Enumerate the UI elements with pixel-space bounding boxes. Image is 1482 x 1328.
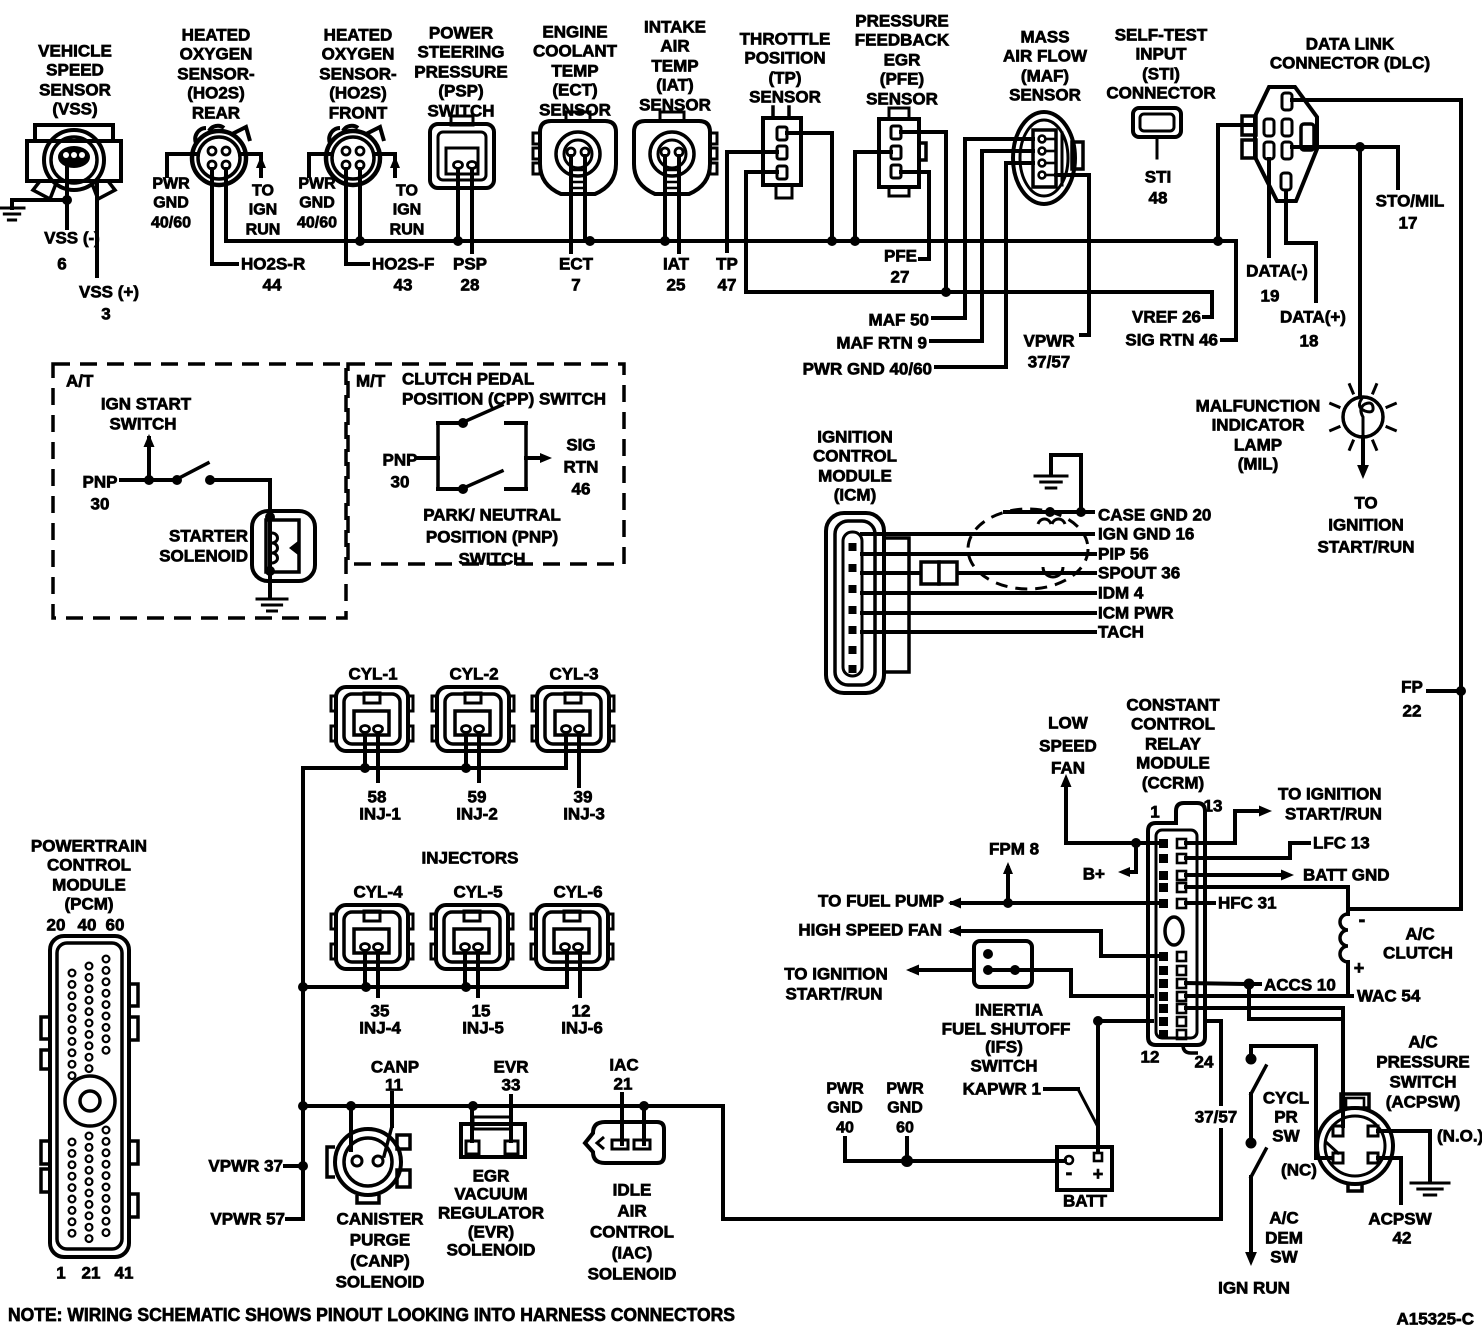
svg-text:(CCRM): (CCRM) [1142, 774, 1204, 793]
svg-text:RTN: RTN [564, 458, 599, 477]
box M/T (dashed) [348, 364, 624, 564]
svg-text:41: 41 [115, 1264, 134, 1283]
label VSS (+) 3 [79, 283, 139, 324]
label TACH [1098, 623, 1144, 642]
svg-text:OXYGEN: OXYGEN [180, 45, 253, 64]
label LOW SPEED FAN [1039, 714, 1097, 778]
svg-text:CLUTCH: CLUTCH [1383, 944, 1453, 963]
svg-text:HIGH SPEED FAN: HIGH SPEED FAN [798, 921, 942, 940]
svg-text:(MAF): (MAF) [1021, 67, 1069, 86]
label CCRM pin 12 and 24 [1141, 1048, 1214, 1072]
svg-text:CONTROL: CONTROL [590, 1223, 674, 1242]
svg-text:INJ-2: INJ-2 [456, 805, 498, 824]
wire DLC to MIL lamp [1358, 147, 1362, 396]
svg-text:POSITION: POSITION [744, 49, 825, 68]
svg-text:22: 22 [1403, 702, 1422, 721]
sensor PFE label [855, 12, 950, 109]
label CCRM pin 1 and 13 [1150, 797, 1222, 822]
label CYCL PR SW [1263, 1089, 1309, 1146]
svg-text:7: 7 [571, 276, 580, 295]
wire MIL to ignition (arrow) [1357, 437, 1369, 479]
svg-text:MAF 50: MAF 50 [869, 311, 929, 330]
svg-text:INJ-1: INJ-1 [359, 805, 401, 824]
wire VPWR 37 stub [285, 1164, 303, 1168]
wire PFE pin1 to VREF bus [901, 132, 946, 292]
svg-text:HEATED: HEATED [324, 26, 393, 45]
svg-text:1: 1 [56, 1264, 65, 1283]
svg-text:(IAC): (IAC) [612, 1244, 653, 1263]
wire ACCS to ACPSW branch [1249, 984, 1343, 1019]
svg-text:19: 19 [1261, 287, 1280, 306]
wire MAF RTN 9 [931, 151, 1033, 341]
svg-text:40: 40 [78, 916, 97, 935]
wire ECT signal [569, 156, 573, 252]
svg-text:ECT: ECT [559, 255, 594, 274]
battery BATT [1057, 1147, 1112, 1211]
label A/C DEM SW [1265, 1209, 1303, 1267]
svg-text:(CANP): (CANP) [350, 1252, 410, 1271]
svg-text:SOLENOID: SOLENOID [159, 547, 248, 566]
wire ICM IGN GND [862, 532, 1093, 536]
svg-text:A/C: A/C [1269, 1209, 1298, 1228]
solenoid STARTER SOLENOID [252, 511, 315, 597]
svg-text:PNP: PNP [383, 451, 418, 470]
wire IGN START arrow [144, 434, 155, 480]
wire HO2S-R to IGN RUN (arrow) [240, 154, 266, 176]
wire CYCL PR SW to ACPSW [1251, 1046, 1330, 1158]
svg-text:MASS: MASS [1020, 28, 1069, 47]
svg-text:SW: SW [1270, 1248, 1298, 1267]
wire EVR 33 signal [509, 1096, 513, 1141]
svg-text:SOLENOID: SOLENOID [588, 1265, 677, 1284]
svg-text:STEERING: STEERING [418, 43, 505, 62]
injector connector CYL-6 [531, 883, 613, 970]
label 59 INJ-2 [456, 788, 498, 824]
svg-text:RUN: RUN [390, 222, 425, 239]
svg-text:A/T: A/T [66, 372, 94, 391]
connector MAF (mass air flow sensor) [1013, 112, 1083, 204]
label STO/MIL 17 [1376, 192, 1445, 233]
label TO IGNITION START/RUN (MIL) [1318, 494, 1415, 557]
svg-text:VSS (+): VSS (+) [79, 283, 139, 302]
svg-text:PWR: PWR [152, 176, 190, 193]
svg-text:TP: TP [716, 255, 738, 274]
svg-text:SWITCH: SWITCH [109, 415, 176, 434]
label VSS (-) 6 [44, 229, 100, 274]
label 15 INJ-5 [462, 1002, 504, 1038]
label VPWR 37/57 [1024, 332, 1075, 372]
wire ACPSW N.O. to ground [1378, 1131, 1430, 1181]
label CLUTCH PEDAL POSITION (CPP) SWITCH [402, 370, 606, 409]
wire HO2S-F PWR GND stub [309, 154, 332, 176]
svg-text:PWR: PWR [298, 176, 336, 193]
ground at ICM case [1035, 455, 1081, 512]
svg-text:CASE GND 20: CASE GND 20 [1098, 506, 1211, 525]
svg-text:3: 3 [101, 305, 110, 324]
wire IAC 21 signal [620, 1094, 624, 1144]
connector ICM (ignition control module) [826, 513, 909, 693]
wire HO2S-F signal to label HO2S-F [346, 169, 368, 264]
svg-text:IGN GND 16: IGN GND 16 [1098, 525, 1194, 544]
svg-text:CONTROL: CONTROL [813, 447, 897, 466]
svg-text:RELAY: RELAY [1145, 735, 1202, 754]
svg-text:1: 1 [1150, 803, 1159, 822]
wire MAF PWR GND [936, 163, 1033, 367]
label KAPWR 1 [963, 1080, 1041, 1099]
svg-text:THROTTLE: THROTTLE [740, 30, 831, 49]
svg-text:TO: TO [252, 183, 274, 200]
svg-text:CONNECTOR: CONNECTOR [1106, 84, 1215, 103]
lamp MIL (malfunction indicator lamp) [1331, 385, 1396, 450]
wire DLC to SIG RTN bus [1218, 125, 1255, 241]
label 37/57 [1192, 1106, 1240, 1128]
svg-text:(STI): (STI) [1142, 65, 1180, 84]
sensor MAF label [1003, 28, 1088, 105]
label HO2S-R 44 [241, 255, 305, 295]
label ECT 7 [559, 255, 594, 295]
connector PSP (power steering pressure switch) [430, 116, 494, 188]
wire IFS to CCRM [1032, 970, 1152, 996]
svg-text:40/60: 40/60 [297, 215, 337, 232]
injector connector CYL-5 [431, 883, 513, 970]
wire HO2S-F to SIG RTN bus [358, 169, 362, 241]
svg-text:DATA(+): DATA(+) [1280, 308, 1346, 327]
ground at starter solenoid [257, 599, 287, 611]
svg-text:CYL-6: CYL-6 [553, 883, 602, 902]
svg-text:VPWR 37: VPWR 37 [208, 1157, 283, 1176]
svg-text:PWR GND 40/60: PWR GND 40/60 [803, 360, 932, 379]
svg-text:PFE: PFE [884, 247, 917, 266]
svg-text:VSS (-): VSS (-) [44, 229, 100, 248]
svg-text:SPOUT 36: SPOUT 36 [1098, 564, 1180, 583]
svg-text:(VSS): (VSS) [52, 100, 97, 119]
sensor HO2S rear label [177, 26, 254, 123]
svg-text:INJECTORS: INJECTORS [422, 849, 519, 868]
label 39 INJ-3 [563, 788, 605, 824]
svg-text:FPM 8: FPM 8 [989, 840, 1039, 859]
switch PNP/IGN start (A/T) [121, 463, 270, 515]
wire ICM TACH [862, 630, 1095, 634]
sensor TP label [740, 30, 831, 107]
svg-text:A/C: A/C [1405, 925, 1434, 944]
svg-text:+: + [1093, 1164, 1104, 1184]
svg-text:POWER: POWER [429, 24, 493, 43]
label MAF RTN 9 [836, 334, 927, 353]
svg-text:COOLANT: COOLANT [533, 42, 618, 61]
label EGR VACUUM REGULATOR (EVR) SOLENOID [438, 1167, 544, 1260]
wire TP signal to label [727, 152, 777, 251]
wire injector bus row2 [303, 982, 567, 992]
label IGN START SWITCH [101, 395, 192, 434]
svg-text:IDLE: IDLE [613, 1181, 652, 1200]
label INJECTORS [422, 849, 519, 868]
svg-text:SIG RTN 46: SIG RTN 46 [1125, 331, 1218, 350]
svg-text:EGR: EGR [884, 51, 921, 70]
svg-text:12: 12 [1141, 1048, 1160, 1067]
svg-text:IGN: IGN [393, 202, 421, 219]
wire CANP 11 signal [384, 1093, 392, 1156]
switch CYCL PR SW [1246, 1054, 1267, 1149]
svg-text:CYL-5: CYL-5 [453, 883, 502, 902]
wire MAF VPWR [1056, 175, 1089, 335]
svg-text:SENSOR: SENSOR [1009, 86, 1081, 105]
wire HO2S-R PWR GND stub [167, 154, 198, 176]
svg-text:17: 17 [1399, 214, 1418, 233]
wire EVR pin from bus [470, 1106, 474, 1141]
svg-text:IGNITION: IGNITION [817, 428, 893, 447]
svg-text:PWR: PWR [826, 1081, 864, 1098]
svg-text:PRESSURE: PRESSURE [855, 12, 949, 31]
label VREF 26 [1132, 308, 1201, 327]
svg-text:CONSTANT: CONSTANT [1126, 696, 1220, 715]
svg-text:-: - [1359, 909, 1366, 931]
connector STI (self-test input) [1133, 108, 1181, 158]
label PCM pins 1 21 41 [56, 1264, 133, 1283]
label WAC 54 [1357, 987, 1421, 1006]
svg-text:+: + [1354, 958, 1365, 978]
svg-text:A15325-C: A15325-C [1397, 1310, 1475, 1328]
svg-text:42: 42 [1393, 1229, 1412, 1248]
connector SPOUT inline [921, 562, 957, 584]
wire ECT to SIG RTN bus [583, 156, 587, 241]
svg-text:KAPWR 1: KAPWR 1 [963, 1080, 1041, 1099]
svg-text:21: 21 [614, 1075, 633, 1094]
connector DLC label [1270, 35, 1430, 73]
svg-text:DATA(-): DATA(-) [1246, 262, 1308, 281]
svg-text:27: 27 [891, 268, 910, 287]
wire FP to right rail [1428, 686, 1466, 696]
svg-text:TACH: TACH [1098, 623, 1144, 642]
label (N.O.) [1437, 1127, 1482, 1146]
svg-text:FP: FP [1401, 678, 1423, 697]
svg-text:RUN: RUN [246, 222, 281, 239]
label HIGH SPEED FAN [798, 921, 942, 940]
svg-text:TO FUEL PUMP: TO FUEL PUMP [818, 892, 944, 911]
svg-text:SWITCH: SWITCH [1389, 1073, 1456, 1092]
svg-text:AIR: AIR [660, 37, 689, 56]
wire IAT signal [677, 156, 681, 252]
svg-text:(HO2S): (HO2S) [329, 84, 387, 103]
svg-text:40/60: 40/60 [151, 215, 191, 232]
svg-text:(ECT): (ECT) [552, 81, 597, 100]
svg-text:INJ-4: INJ-4 [359, 1019, 401, 1038]
svg-text:SPEED: SPEED [1039, 737, 1097, 756]
svg-text:CONNECTOR (DLC): CONNECTOR (DLC) [1270, 54, 1430, 73]
svg-text:HO2S-R: HO2S-R [241, 255, 305, 274]
label MAF 50 [869, 311, 929, 330]
label HO2S-F 43 [372, 255, 434, 295]
svg-text:SENSOR-: SENSOR- [319, 65, 396, 84]
svg-text:SWITCH: SWITCH [427, 102, 494, 121]
wire CYL-6 pins [567, 951, 580, 996]
svg-text:47: 47 [718, 276, 737, 295]
label 35 INJ-4 [359, 1002, 401, 1038]
wire CCRM to ACPSW pin [1186, 1008, 1343, 1126]
svg-text:SW: SW [1272, 1127, 1300, 1146]
wire CASE GND [1005, 507, 1093, 517]
label CASE GND 20 [1098, 506, 1211, 525]
label (NC) [1281, 1161, 1317, 1180]
label 58 INJ-1 [359, 788, 401, 824]
box A/T (dashed) [53, 364, 346, 618]
label IGN RUN [1218, 1279, 1290, 1298]
svg-text:START/RUN: START/RUN [786, 985, 883, 1004]
svg-text:(IAT): (IAT) [656, 76, 693, 95]
wire CCRM HFC [1186, 901, 1214, 905]
module ICM label [813, 428, 897, 505]
sensor IAT label [639, 18, 711, 115]
label PWR GND 40/60 (HO2S-F) [297, 176, 337, 232]
svg-text:TO: TO [396, 183, 418, 200]
solenoid connector IAC (idle air control) [585, 1122, 664, 1163]
injector connector CYL-3 [532, 665, 614, 752]
wire PWR GND to BATT [845, 1138, 1065, 1167]
connector STI label [1106, 26, 1215, 103]
wire CYL-1 pins [365, 733, 378, 781]
label STARTER SOLENOID [159, 527, 248, 566]
label PIP 56 [1098, 545, 1149, 564]
wire MAF 50 [933, 139, 1033, 318]
svg-text:CLUTCH PEDAL: CLUTCH PEDAL [402, 370, 534, 389]
label VPWR 57 [210, 1210, 285, 1229]
label PWR GND 40 [826, 1081, 864, 1137]
svg-text:CANP: CANP [371, 1058, 419, 1077]
svg-text:-: - [1066, 1162, 1073, 1184]
svg-text:PIP 56: PIP 56 [1098, 545, 1149, 564]
svg-text:SENSOR: SENSOR [39, 81, 111, 100]
solenoid connector EVR (EGR vacuum regulator) [461, 1117, 525, 1157]
label TO IGNITION START/RUN (CCRM) [1278, 785, 1382, 824]
svg-text:PNP: PNP [83, 473, 118, 492]
svg-text:GND: GND [153, 195, 189, 212]
label ACPSW 42 [1368, 1210, 1432, 1248]
wire DLC to FP/right rail [1292, 100, 1461, 909]
svg-text:STI: STI [1145, 168, 1171, 187]
svg-text:PWR: PWR [886, 1081, 924, 1098]
label PWR GND 40/60 (MAF) [803, 360, 932, 379]
svg-text:ICM PWR: ICM PWR [1098, 604, 1174, 623]
label FP 22 [1401, 678, 1423, 721]
switch PSP label [414, 24, 508, 121]
svg-text:VACUUM: VACUUM [454, 1185, 527, 1204]
svg-text:(PFE): (PFE) [880, 70, 924, 89]
svg-text:MAF RTN 9: MAF RTN 9 [836, 334, 927, 353]
svg-text:TEMP: TEMP [651, 57, 698, 76]
wire VSS(+) [95, 183, 99, 276]
wire DLC to STO/MIL [1292, 142, 1398, 188]
svg-text:48: 48 [1149, 189, 1168, 208]
svg-text:M/T: M/T [356, 372, 386, 391]
svg-text:ACPSW: ACPSW [1368, 1210, 1432, 1229]
svg-text:GND: GND [887, 1100, 923, 1117]
svg-text:PARK/ NEUTRAL: PARK/ NEUTRAL [423, 506, 561, 525]
svg-text:OXYGEN: OXYGEN [322, 45, 395, 64]
label PWR GND 40/60 (HO2S-R) [151, 176, 191, 232]
wire VPWR 57 stub [287, 1217, 303, 1221]
svg-text:SPEED: SPEED [46, 61, 104, 80]
label IDM 4 [1098, 584, 1144, 603]
label SIG RTN 46 [1125, 331, 1218, 350]
wire CANP pin from bus [349, 1106, 353, 1150]
wire CCRM ACCS [1186, 979, 1260, 990]
svg-text:(PSP): (PSP) [438, 82, 483, 101]
wire CCRM low speed fan [1061, 774, 1160, 848]
svg-text:TO: TO [1354, 494, 1377, 513]
wire PSP pin to SIG RTN bus [456, 170, 460, 241]
module PCM label [31, 837, 147, 914]
wire IAT to SIG RTN bus [663, 156, 667, 241]
svg-text:44: 44 [263, 276, 282, 295]
ellipse distributor (dashed) [968, 509, 1088, 589]
svg-text:START/RUN: START/RUN [1285, 805, 1382, 824]
svg-text:CONTROL: CONTROL [47, 856, 131, 875]
injector connector CYL-4 [331, 883, 413, 970]
connector CCRM (constant control relay module) [1148, 803, 1205, 1053]
label CANP 11 [371, 1058, 419, 1095]
svg-text:SELF-TEST: SELF-TEST [1115, 26, 1208, 45]
svg-text:INPUT: INPUT [1136, 45, 1188, 64]
connector TP (throttle position sensor) [763, 107, 801, 198]
svg-text:VPWR 57: VPWR 57 [210, 1210, 285, 1229]
svg-text:(ICM): (ICM) [834, 486, 876, 505]
coil A/C clutch [1340, 909, 1365, 996]
svg-text:TO IGNITION: TO IGNITION [1278, 785, 1382, 804]
wire solenoid bus / VPWR loop [303, 1021, 1221, 1219]
wire DATA(+) [1286, 191, 1316, 301]
svg-text:IGN: IGN [249, 202, 277, 219]
svg-text:HO2S-F: HO2S-F [372, 255, 434, 274]
svg-text:SOLENOID: SOLENOID [447, 1241, 536, 1260]
wire CCRM BATT GND (arrow) [1186, 870, 1294, 881]
svg-text:(N.O.): (N.O.) [1437, 1127, 1482, 1146]
injector connector CYL-1 [331, 665, 413, 752]
note text [8, 1305, 735, 1325]
label TP 47 [716, 255, 738, 295]
label PWR GND 60 [886, 1081, 924, 1137]
label VPWR 37 [208, 1157, 283, 1176]
svg-text:SIG: SIG [566, 436, 595, 455]
svg-text:INJ-6: INJ-6 [561, 1019, 603, 1038]
connector HO2S-F (heated oxygen sensor) [326, 126, 384, 185]
wire TP pin3 to VREF bus [746, 172, 777, 292]
wire CCRM to A/C clutch coil [1186, 887, 1348, 914]
wire HO2S-F to IGN RUN (arrow) [374, 154, 400, 176]
label IAC 21 [609, 1056, 638, 1094]
wire HO2S-R to SIG RTN bus [224, 169, 228, 241]
svg-text:FEEDBACK: FEEDBACK [855, 31, 950, 50]
wire injector bus row1 [303, 763, 566, 773]
svg-text:21: 21 [82, 1264, 101, 1283]
svg-text:PSP: PSP [453, 255, 487, 274]
svg-text:LFC 13: LFC 13 [1313, 834, 1370, 853]
wire to ignition start/run via IFS (arrow) [906, 965, 974, 976]
solenoid connector CANP (canister purge) [327, 1129, 410, 1203]
svg-text:ENGINE: ENGINE [542, 23, 607, 42]
svg-text:(NC): (NC) [1281, 1161, 1317, 1180]
label SIG RTN 46 (M/T) [564, 436, 599, 499]
wire ICM IDM [862, 591, 1095, 595]
wire FPM 8 branch (arrow) [1003, 862, 1013, 903]
sensor ECT label [533, 23, 618, 120]
label ACCS 10 [1264, 976, 1336, 995]
label PCM pins 20 40 60 [47, 916, 125, 935]
label TO FUEL PUMP [818, 892, 944, 911]
svg-text:IAC: IAC [609, 1056, 638, 1075]
connector VSS (vehicle speed sensor) [27, 125, 121, 199]
svg-text:INTAKE: INTAKE [644, 18, 706, 37]
wire ICM PWR [862, 611, 1095, 615]
label STI 48 [1145, 168, 1171, 208]
